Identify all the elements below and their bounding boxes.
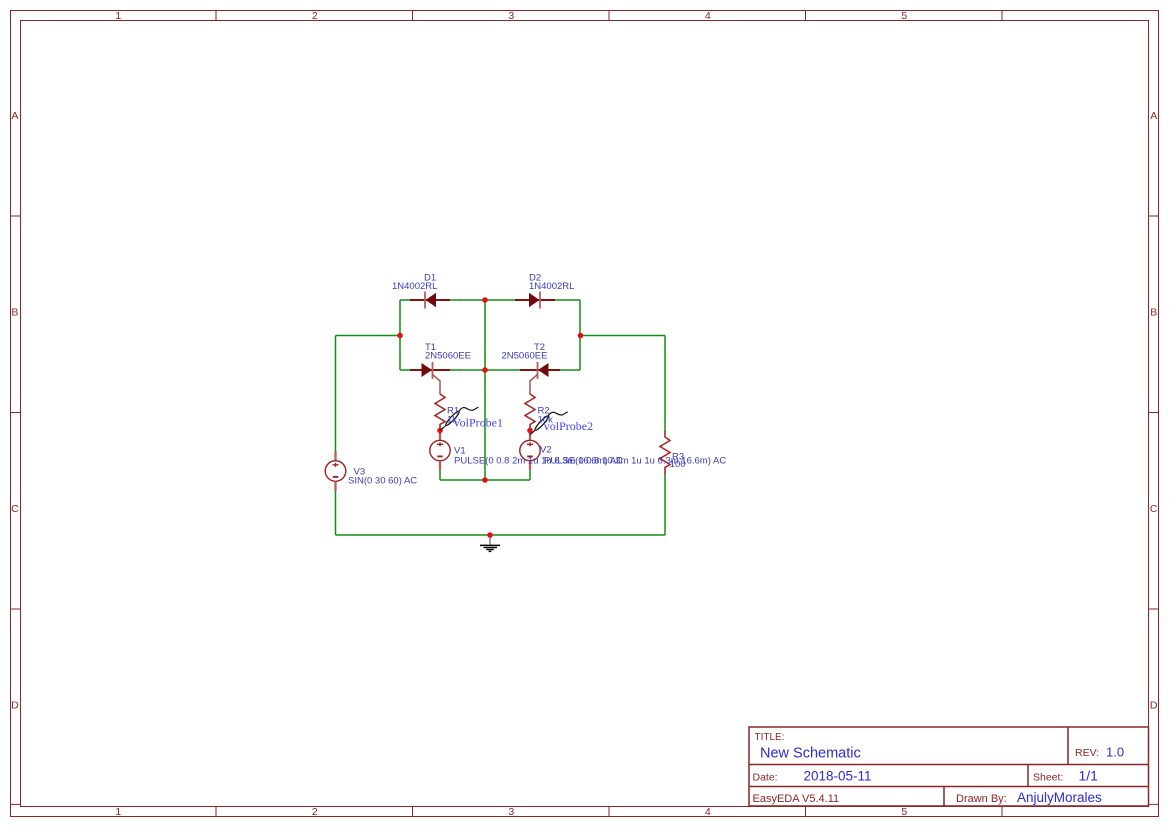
svg-text:2: 2 (312, 10, 318, 22)
svg-text:1/1: 1/1 (1079, 768, 1099, 784)
svg-text:Sheet:: Sheet: (1033, 772, 1063, 784)
svg-text:2018-05-11: 2018-05-11 (804, 769, 872, 784)
svg-text:4: 4 (705, 806, 711, 818)
svg-text:EasyEDA V5.4.11: EasyEDA V5.4.11 (753, 793, 840, 805)
svg-text:3: 3 (508, 806, 514, 818)
svg-text:REV:: REV: (1075, 747, 1099, 759)
svg-text:SIN(0 30 60) AC: SIN(0 30 60) AC (348, 476, 417, 487)
svg-text:1: 1 (115, 10, 121, 22)
svg-text:2: 2 (312, 806, 318, 818)
svg-text:A: A (1150, 110, 1157, 122)
svg-text:5: 5 (901, 10, 907, 22)
svg-text:1N4002RL: 1N4002RL (392, 281, 437, 292)
svg-text:Drawn By:: Drawn By: (956, 793, 1007, 805)
svg-text:C: C (11, 503, 19, 515)
svg-text:5: 5 (901, 806, 907, 818)
svg-text:1N4002RL: 1N4002RL (529, 281, 574, 292)
svg-text:D: D (1150, 699, 1158, 711)
svg-text:D: D (11, 699, 19, 711)
svg-text:B: B (11, 306, 18, 318)
svg-text:A: A (11, 110, 18, 122)
svg-text:AnjulyMorales: AnjulyMorales (1017, 790, 1102, 805)
svg-text:2N5060EE: 2N5060EE (425, 351, 471, 362)
svg-text:TITLE:: TITLE: (755, 732, 785, 743)
svg-text:volProbe2: volProbe2 (544, 419, 593, 433)
svg-text:1: 1 (115, 806, 121, 818)
svg-text:3: 3 (508, 10, 514, 22)
svg-text:PULSE(0 0.8 10.3m 1u 1u 6.3m 1: PULSE(0 0.8 10.3m 1u 1u 6.3m 16.6m) AC (544, 456, 726, 467)
svg-text:1.0: 1.0 (1106, 745, 1124, 760)
svg-text:Date:: Date: (753, 772, 778, 784)
svg-text:4: 4 (705, 10, 711, 22)
svg-text:2N5060EE: 2N5060EE (502, 351, 548, 362)
svg-text:VolProbe1: VolProbe1 (453, 415, 503, 429)
svg-text:C: C (1150, 503, 1158, 515)
svg-text:B: B (1150, 306, 1157, 318)
svg-text:New Schematic: New Schematic (760, 746, 861, 762)
svg-text:V2: V2 (540, 445, 552, 456)
